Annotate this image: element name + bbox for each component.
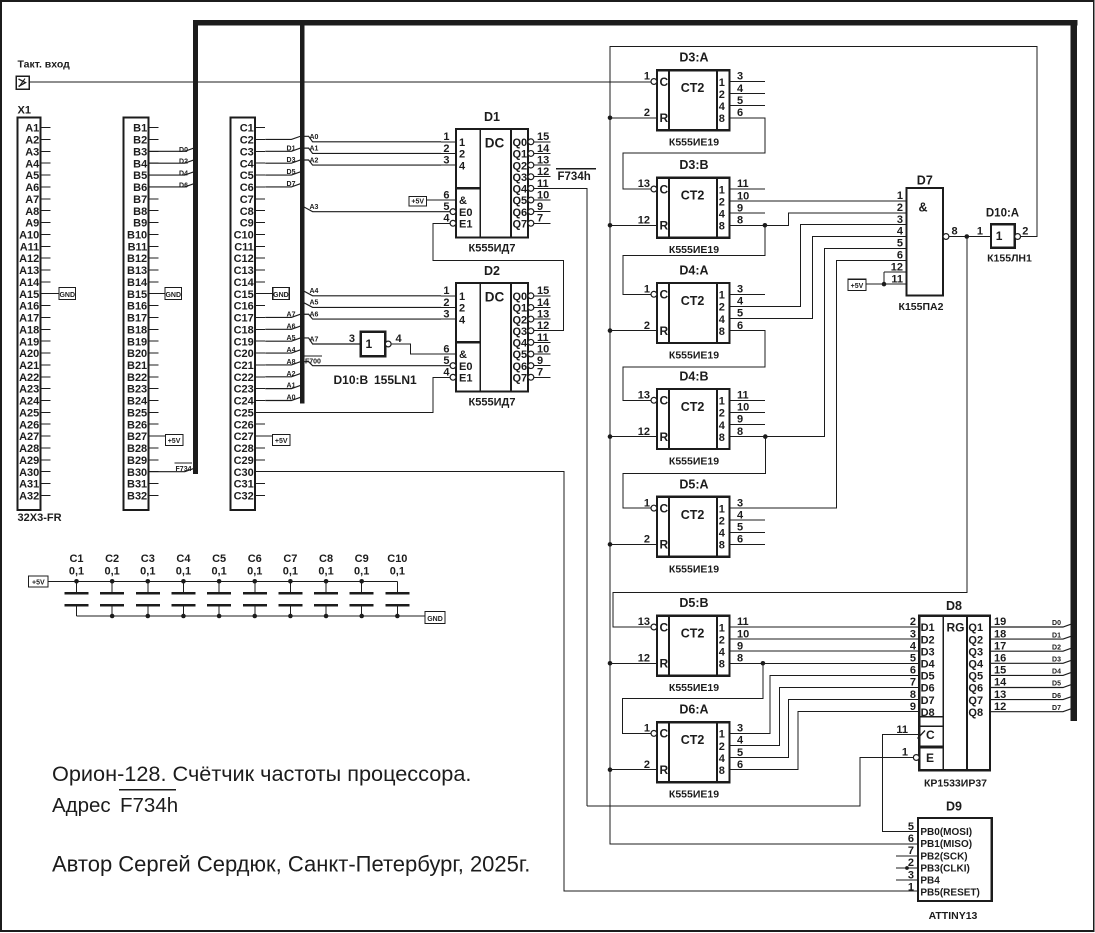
- wire C20 (A4) into bus 2: [265, 350, 303, 353]
- svg-text:Автор Сергей Сердюк, Санкт-Пет: Автор Сергей Сердюк, Санкт-Петербург, 20…: [52, 852, 530, 877]
- svg-text:8: 8: [910, 689, 916, 701]
- svg-text:6: 6: [897, 249, 903, 261]
- svg-text:A26: A26: [19, 419, 39, 431]
- svg-text:16: 16: [994, 653, 1006, 665]
- wire +5V to D1 pin 6: [427, 199, 457, 201]
- svg-text:1: 1: [443, 285, 449, 297]
- svg-text:B29: B29: [127, 455, 147, 467]
- svg-text:2: 2: [719, 196, 725, 208]
- cascade D3:A pin6 -> D3:B C: [623, 118, 765, 189]
- svg-text:DC: DC: [485, 289, 505, 304]
- svg-text:B5: B5: [133, 170, 147, 182]
- svg-text:R: R: [660, 219, 669, 233]
- wire A15 to GND: [51, 293, 60, 295]
- svg-text:R: R: [660, 430, 669, 444]
- svg-text:D3: D3: [1052, 657, 1061, 664]
- svg-text:10: 10: [737, 402, 749, 414]
- GND box B15: [165, 288, 182, 300]
- D8 outputs Q1-Q8 to output bus, nets D0-D7: [990, 624, 1075, 627]
- connector column C pin stubs: [255, 128, 265, 496]
- wire D3:B pin 8 -> D4:A C (cascade) and D7 pin 2: [623, 225, 765, 294]
- +5V box C27: [273, 434, 291, 445]
- svg-text:C11: C11: [234, 241, 254, 253]
- svg-text:12: 12: [891, 261, 903, 273]
- svg-text:B19: B19: [127, 336, 147, 348]
- svg-text:0,1: 0,1: [247, 566, 262, 578]
- svg-text:11: 11: [891, 273, 903, 285]
- svg-text:C7: C7: [283, 553, 297, 565]
- svg-text:A7: A7: [310, 336, 319, 343]
- svg-text:C9: C9: [240, 218, 254, 230]
- svg-text:К155ПА2: К155ПА2: [899, 301, 944, 313]
- svg-text:3: 3: [737, 723, 743, 735]
- svg-text:C26: C26: [234, 419, 254, 431]
- svg-text:4: 4: [897, 226, 904, 238]
- svg-text:6: 6: [737, 320, 743, 332]
- counter D5:B К555ИЕ19 (CT2): [638, 596, 750, 694]
- svg-text:0,1: 0,1: [176, 566, 191, 578]
- svg-text:D1: D1: [484, 110, 500, 124]
- svg-text:2: 2: [459, 303, 465, 315]
- svg-text:9: 9: [910, 701, 916, 713]
- svg-text:B8: B8: [133, 206, 147, 218]
- counter D3:A К555ИЕ19 (CT2): [644, 51, 744, 149]
- svg-text:0,1: 0,1: [283, 566, 298, 578]
- stub D9 pin 2: [896, 867, 918, 869]
- svg-text:D4: D4: [921, 659, 936, 671]
- svg-text:6: 6: [443, 343, 449, 355]
- svg-text:4: 4: [737, 83, 744, 95]
- svg-text:C15: C15: [234, 289, 254, 301]
- svg-text:X1: X1: [18, 105, 31, 117]
- svg-text:3: 3: [737, 284, 743, 296]
- svg-text:3: 3: [443, 308, 449, 320]
- svg-text:D6:A: D6:A: [679, 703, 708, 717]
- input terminal symbol (clock input): [16, 76, 29, 89]
- svg-text:C23: C23: [234, 384, 254, 396]
- wire B30 (F734) to bus 1 end: [148, 468, 197, 471]
- svg-text:2: 2: [443, 143, 449, 155]
- wire B4 (D2) to bus 1: [148, 160, 197, 163]
- svg-text:4: 4: [459, 160, 466, 172]
- wire B3 (D0) to bus 1: [148, 148, 197, 151]
- svg-text:12: 12: [638, 653, 650, 665]
- svg-text:C27: C27: [234, 431, 254, 443]
- wire D8 E (pin 1) to F734h select net: [587, 758, 914, 807]
- capacitor C8 0,1: [314, 553, 338, 616]
- svg-text:10: 10: [737, 628, 749, 640]
- svg-text:C30: C30: [234, 467, 254, 479]
- bus top horizontal (thick): [193, 20, 1078, 25]
- register D8 КР1533ИР37: [896, 616, 1007, 771]
- svg-text:14: 14: [994, 677, 1007, 689]
- svg-text:B11: B11: [128, 241, 148, 253]
- svg-text:A28: A28: [19, 443, 39, 455]
- svg-text:К555ИД7: К555ИД7: [469, 243, 516, 255]
- svg-text:12: 12: [638, 215, 650, 227]
- svg-text:14: 14: [537, 297, 550, 309]
- svg-text:C: C: [660, 288, 669, 302]
- junction D5:B pin 8: [761, 661, 766, 666]
- svg-text:B21: B21: [127, 360, 147, 372]
- svg-text:C: C: [660, 727, 669, 741]
- svg-text:Q2: Q2: [513, 314, 528, 326]
- svg-text:6: 6: [908, 833, 914, 845]
- capacitor C2 0,1: [100, 553, 124, 616]
- svg-text:D1: D1: [1052, 632, 1061, 639]
- svg-text:D4: D4: [179, 171, 188, 178]
- connector column B pin stubs: [148, 128, 158, 496]
- bus 1 vertical (thick, ends at B30/F734): [193, 20, 198, 474]
- connector column A pin labels: [19, 123, 40, 503]
- svg-text:A2: A2: [287, 371, 296, 378]
- svg-text:11: 11: [896, 724, 908, 736]
- stub D9 pin 3: [896, 879, 918, 881]
- wire B15 to GND: [158, 293, 167, 295]
- svg-text:C: C: [660, 182, 669, 196]
- svg-text:15: 15: [537, 285, 549, 297]
- svg-text:B3: B3: [133, 146, 147, 158]
- svg-text:C19: C19: [234, 336, 254, 348]
- svg-text:4: 4: [719, 420, 726, 432]
- svg-text:B24: B24: [127, 396, 148, 408]
- svg-text:1: 1: [644, 723, 650, 735]
- inverter D10:B (155ЛН1): [349, 332, 403, 356]
- svg-text:8: 8: [737, 426, 743, 438]
- svg-text:D10:B: D10:B: [334, 373, 369, 387]
- svg-text:C7: C7: [240, 194, 254, 206]
- svg-text:B13: B13: [127, 265, 147, 277]
- svg-text:К555ИЕ19: К555ИЕ19: [669, 789, 719, 801]
- svg-text:C24: C24: [234, 396, 255, 408]
- svg-text:8: 8: [719, 221, 725, 233]
- svg-text:D2: D2: [179, 159, 188, 166]
- svg-text:1: 1: [644, 497, 650, 509]
- svg-text:C2: C2: [105, 553, 119, 565]
- wire joining D7 pins 12 and 11: [883, 272, 885, 284]
- svg-text:4: 4: [719, 314, 726, 326]
- svg-text:B25: B25: [127, 407, 147, 419]
- svg-text:R: R: [660, 657, 669, 671]
- svg-text:12: 12: [537, 166, 549, 178]
- svg-text:R: R: [660, 763, 669, 777]
- svg-text:Адрес: Адрес: [52, 794, 111, 817]
- svg-text:D3: D3: [287, 157, 296, 164]
- svg-text:D7: D7: [921, 695, 935, 707]
- svg-text:A7: A7: [287, 311, 296, 318]
- svg-text:GND: GND: [165, 292, 181, 299]
- svg-text:Q0: Q0: [513, 137, 528, 149]
- svg-text:A25: A25: [19, 407, 39, 419]
- svg-text:C: C: [660, 501, 669, 515]
- svg-text:Q8: Q8: [968, 707, 983, 719]
- svg-text:17: 17: [994, 640, 1006, 652]
- svg-text:2: 2: [897, 202, 903, 214]
- svg-text:К555ИЕ19: К555ИЕ19: [669, 456, 719, 468]
- svg-text:Q4: Q4: [513, 184, 529, 196]
- svg-text:К555ИЕ19: К555ИЕ19: [669, 137, 719, 149]
- svg-text:5: 5: [737, 95, 743, 107]
- address wires C2,C3,C4 -> D1 pins 1,2,3 (A0,A1,A2): [265, 136, 441, 142]
- capacitor C5 0,1: [207, 553, 231, 616]
- svg-text:1: 1: [719, 290, 725, 302]
- wire reset net to D9 PB1: [610, 770, 918, 844]
- svg-text:5: 5: [737, 308, 743, 320]
- svg-text:2: 2: [443, 297, 449, 309]
- svg-text:E0: E0: [459, 361, 472, 373]
- svg-text:2: 2: [719, 516, 725, 528]
- stray junction mark on PB3 stub: [905, 866, 909, 870]
- wire D7 pin 12: [884, 271, 907, 273]
- svg-text:A2: A2: [25, 135, 39, 147]
- svg-text:D5: D5: [1052, 681, 1061, 688]
- capacitor C10 0,1: [385, 553, 409, 616]
- svg-text:&: &: [459, 195, 467, 207]
- svg-text:CT2: CT2: [681, 508, 705, 522]
- wire D5:B out 0 -> D8 D1: [730, 626, 920, 628]
- svg-text:1: 1: [897, 190, 903, 202]
- connector X1 column B body: [124, 118, 149, 511]
- svg-text:A3: A3: [310, 204, 319, 211]
- svg-text:+5V: +5V: [168, 438, 181, 445]
- svg-text:5: 5: [737, 522, 743, 534]
- svg-text:A5: A5: [310, 300, 319, 307]
- svg-text:6: 6: [737, 107, 743, 119]
- svg-text:6: 6: [737, 534, 743, 546]
- svg-text:К555ИЕ19: К555ИЕ19: [669, 563, 719, 575]
- svg-text:155LN1: 155LN1: [374, 373, 417, 387]
- svg-text:A27: A27: [19, 431, 39, 443]
- NAND gate D7 К155ПА2: [891, 174, 958, 314]
- svg-text:B4: B4: [133, 158, 148, 170]
- svg-text:B30: B30: [127, 467, 147, 479]
- svg-text:4: 4: [719, 209, 726, 221]
- capacitor C4 0,1: [171, 553, 195, 616]
- counter D4:A К555ИЕ19 (CT2): [644, 264, 744, 362]
- svg-text:12: 12: [994, 701, 1006, 713]
- svg-text:Q1: Q1: [513, 149, 528, 161]
- svg-text:9: 9: [537, 201, 543, 213]
- svg-text:2: 2: [910, 616, 916, 628]
- svg-text:F700: F700: [305, 358, 321, 365]
- svg-text:3: 3: [443, 154, 449, 166]
- +5V box at D1 pin 6: [409, 197, 427, 207]
- svg-text:C14: C14: [234, 277, 255, 289]
- svg-text:2: 2: [1022, 225, 1028, 237]
- svg-text:15: 15: [537, 131, 549, 143]
- wire B27 to +5V: [158, 435, 165, 437]
- svg-text:0,1: 0,1: [69, 566, 84, 578]
- svg-text:C3: C3: [240, 146, 254, 158]
- svg-text:A7: A7: [25, 194, 39, 206]
- svg-text:Q6: Q6: [513, 207, 528, 219]
- svg-text:12: 12: [638, 426, 650, 438]
- svg-text:13: 13: [638, 390, 650, 402]
- svg-text:B22: B22: [127, 372, 147, 384]
- wire C6 into bus 2: [265, 184, 303, 187]
- +5V box capacitor rail: [29, 576, 48, 587]
- svg-text:К555ИЕ19: К555ИЕ19: [669, 244, 719, 256]
- capacitor C9 0,1: [350, 553, 374, 616]
- svg-text:Q1: Q1: [968, 622, 983, 634]
- svg-text:A9: A9: [25, 218, 39, 230]
- svg-text:B2: B2: [133, 135, 147, 147]
- svg-text:PB2(SCK): PB2(SCK): [920, 851, 967, 862]
- svg-text:C: C: [926, 728, 935, 742]
- svg-text:3: 3: [897, 214, 903, 226]
- wire C25 to D2 E1: [265, 377, 450, 412]
- bus 3 vertical right (thick, data out): [1071, 20, 1077, 721]
- svg-text:C28: C28: [234, 443, 254, 455]
- svg-text:A10: A10: [19, 229, 39, 241]
- svg-text:A1: A1: [310, 146, 319, 153]
- svg-text:8: 8: [719, 326, 725, 338]
- svg-text:8: 8: [952, 226, 958, 238]
- svg-text:C20: C20: [234, 348, 254, 360]
- svg-text:RG: RG: [947, 621, 965, 635]
- svg-text:11: 11: [737, 390, 749, 402]
- wire D5:B pin 8 -> D8 D4 and cascade to D6:A C: [730, 662, 920, 664]
- svg-text:A3: A3: [25, 146, 39, 158]
- svg-text:3: 3: [349, 333, 355, 345]
- svg-text:B23: B23: [127, 384, 147, 396]
- svg-text:D0: D0: [179, 147, 188, 154]
- svg-text:B9: B9: [133, 218, 147, 230]
- svg-text:1: 1: [719, 396, 725, 408]
- svg-text:7: 7: [908, 845, 914, 857]
- svg-text:A15: A15: [19, 289, 39, 301]
- svg-text:A6: A6: [25, 182, 39, 194]
- svg-text:E0: E0: [459, 207, 472, 219]
- svg-text:1: 1: [908, 881, 914, 893]
- address taps A4,A5 from bus 2 -> D2 pins 1,2: [301, 291, 441, 296]
- svg-text:D5:B: D5:B: [679, 596, 708, 610]
- svg-text:C8: C8: [319, 553, 333, 565]
- decoder D2 К555ИД7: [441, 264, 551, 409]
- svg-text:PB3(CLKI): PB3(CLKI): [920, 863, 969, 874]
- svg-text:D5: D5: [921, 671, 935, 683]
- svg-text:B12: B12: [127, 253, 147, 265]
- svg-text:4: 4: [719, 528, 726, 540]
- svg-text:8: 8: [719, 540, 725, 552]
- svg-text:A18: A18: [19, 324, 39, 336]
- svg-text:1: 1: [902, 747, 908, 759]
- svg-text:14: 14: [537, 143, 550, 155]
- connector X1 column A body: [18, 118, 41, 511]
- svg-text:&: &: [919, 201, 928, 215]
- wires D6:A pins 3,4,5,6 -> D8 D5-D8: [730, 675, 920, 733]
- capacitor C3 0,1: [136, 553, 160, 616]
- svg-text:D6: D6: [1052, 693, 1061, 700]
- svg-text:D2: D2: [484, 264, 500, 278]
- svg-text:A30: A30: [19, 467, 39, 479]
- overline on F734h in title: [119, 789, 176, 791]
- svg-text:2: 2: [719, 302, 725, 314]
- svg-text:2: 2: [644, 534, 650, 546]
- wire D10:A output to reset net (R of all counters): [610, 47, 1037, 770]
- svg-text:Q7: Q7: [968, 695, 983, 707]
- wire B5 (D4) to bus 1: [148, 172, 197, 175]
- svg-text:D1: D1: [921, 622, 935, 634]
- svg-text:C9: C9: [355, 553, 369, 565]
- svg-text:C10: C10: [234, 229, 254, 241]
- svg-text:A2: A2: [310, 157, 319, 164]
- svg-text:7: 7: [910, 677, 916, 689]
- junction pins 11/12 +5V: [882, 282, 887, 287]
- wire D8 C (pin 11) to D9 PB0: [883, 735, 920, 832]
- svg-text:C5: C5: [212, 553, 226, 565]
- svg-text:C22: C22: [234, 372, 254, 384]
- svg-text:2: 2: [459, 149, 465, 161]
- svg-text:13: 13: [638, 616, 650, 628]
- svg-text:1: 1: [366, 337, 373, 351]
- svg-text:C1: C1: [69, 553, 83, 565]
- svg-text:A19: A19: [19, 336, 39, 348]
- svg-text:R: R: [660, 538, 669, 552]
- svg-text:D4: D4: [1052, 669, 1061, 676]
- counter D5:A К555ИЕ19 (CT2): [644, 477, 744, 575]
- svg-text:CT2: CT2: [681, 81, 705, 95]
- svg-text:C: C: [660, 394, 669, 408]
- svg-text:+5V: +5V: [411, 199, 424, 206]
- wire D10:B out to D2 pin 6: [391, 344, 441, 354]
- svg-text:A1: A1: [287, 383, 296, 390]
- svg-text:B18: B18: [127, 324, 147, 336]
- GND box A15: [59, 288, 76, 300]
- svg-text:DC: DC: [485, 135, 505, 150]
- svg-text:A13: A13: [19, 265, 39, 277]
- svg-text:D3: D3: [921, 646, 935, 658]
- svg-text:A32: A32: [19, 491, 39, 503]
- connector column C pin labels: [234, 123, 255, 503]
- svg-text:1: 1: [644, 71, 650, 83]
- inverter D10:A К155ЛН1: [977, 224, 1029, 248]
- wire D5:B out 1 -> D8 D2: [730, 638, 920, 640]
- svg-text:A0: A0: [310, 134, 319, 141]
- svg-text:D7: D7: [917, 174, 933, 188]
- svg-text:Q2: Q2: [968, 634, 983, 646]
- svg-text:D4:A: D4:A: [679, 264, 708, 278]
- svg-text:32X3-FR: 32X3-FR: [18, 512, 62, 524]
- wire D5:B out 2 -> D8 D3: [730, 650, 920, 652]
- svg-text:F734: F734: [176, 466, 192, 473]
- svg-text:A17: A17: [19, 313, 39, 325]
- svg-text:8: 8: [719, 765, 725, 777]
- svg-text:4: 4: [459, 314, 466, 326]
- svg-text:E1: E1: [459, 372, 472, 384]
- svg-text:C5: C5: [240, 170, 254, 182]
- svg-text:19: 19: [994, 616, 1006, 628]
- svg-text:D2: D2: [1052, 644, 1061, 651]
- svg-text:C16: C16: [234, 301, 254, 313]
- wire +5V to D7 pin 11: [866, 283, 907, 285]
- wire D4:A pin 4 -> D7 pin 3: [730, 225, 907, 307]
- GND box capacitor rail: [425, 612, 445, 624]
- svg-text:A31: A31: [19, 479, 39, 491]
- svg-text:D2: D2: [921, 634, 935, 646]
- svg-text:C17: C17: [234, 313, 254, 325]
- svg-text:10: 10: [537, 343, 549, 355]
- svg-text:D8: D8: [921, 707, 935, 719]
- svg-text:5: 5: [908, 821, 914, 833]
- svg-text:B28: B28: [127, 443, 147, 455]
- svg-text:D6: D6: [179, 182, 188, 189]
- svg-text:3: 3: [910, 628, 916, 640]
- svg-text:GND: GND: [273, 292, 289, 299]
- svg-text:3: 3: [908, 869, 914, 881]
- wire C15 to GND: [265, 293, 274, 295]
- svg-text:Q0: Q0: [513, 291, 528, 303]
